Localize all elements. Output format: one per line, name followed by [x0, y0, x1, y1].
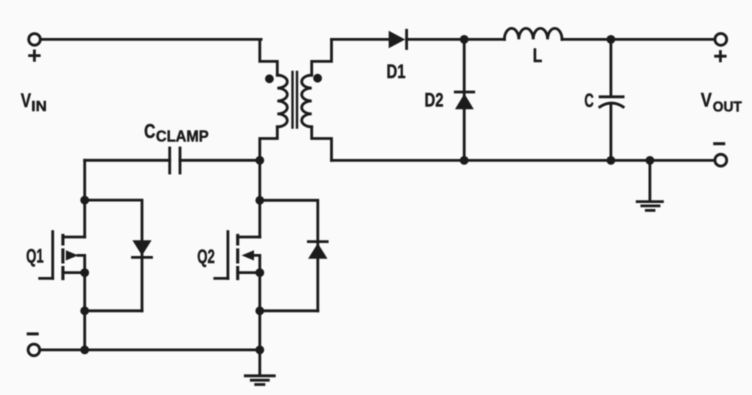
- transformer T1 primary winding: [277, 75, 287, 127]
- capacitor C branch wire bottom: [610, 105, 613, 161]
- ground output side: [637, 160, 662, 210]
- plus sign VOUT+: [716, 52, 726, 61]
- wire Q2 drain line: [258, 158, 261, 237]
- svg-text:D2: D2: [425, 90, 444, 111]
- svg-text:Q2: Q2: [197, 247, 215, 268]
- wire Q2 source down: [258, 273, 261, 350]
- svg-text:V: V: [701, 91, 712, 112]
- transformer secondary phase dot: [313, 74, 322, 83]
- wire transformer primary bottom step: [260, 127, 278, 161]
- transformer T1 secondary winding: [302, 75, 312, 127]
- wire Q1 body-diode branch top: [85, 200, 142, 311]
- minus sign VOUT-: [715, 142, 724, 145]
- svg-text:C: C: [144, 121, 155, 143]
- ground primary side: [245, 350, 274, 385]
- node D2 bottom junction dot: [460, 156, 469, 165]
- svg-text:C: C: [584, 91, 594, 112]
- svg-text:D1: D1: [387, 62, 406, 83]
- terminal VOUT-: [715, 154, 727, 166]
- svg-text:CLAMP: CLAMP: [156, 129, 209, 146]
- wire secondary top to D1: [332, 38, 390, 41]
- node C bottom junction dot: [607, 156, 616, 165]
- node Q2 top junction dot: [255, 196, 264, 205]
- minus sign VIN-: [28, 332, 37, 335]
- diode across Q1: [132, 240, 151, 257]
- diode across Q2: [308, 242, 327, 259]
- svg-text:Q1: Q1: [26, 247, 44, 268]
- svg-text:OUT: OUT: [713, 99, 742, 115]
- terminal VIN-: [28, 344, 40, 356]
- diode D2 branch wire: [463, 39, 466, 160]
- diode D2: [455, 92, 474, 109]
- node Q1 top junction dot: [80, 196, 89, 205]
- wire bottom output rail: [332, 159, 715, 162]
- wire node A to inductor L: [464, 38, 504, 41]
- node Q1 source junction dot: [80, 268, 89, 277]
- wire D1 cathode to node A: [407, 38, 465, 41]
- node Q2 diode bottom junction dot: [255, 306, 264, 315]
- wire transformer secondary bottom step: [312, 127, 332, 161]
- wire bottom rail left: [40, 348, 260, 351]
- terminal VIN+: [29, 34, 41, 46]
- wire transformer secondary top step: [312, 39, 332, 75]
- capacitor CCLAMP: [170, 148, 180, 173]
- wire top rail left (VIN+ to transformer primary): [41, 38, 261, 41]
- wire inductor L to node B: [562, 38, 611, 41]
- wire transformer primary top step: [260, 39, 278, 75]
- transistor Q2 (N-channel MOSFET): [215, 232, 260, 279]
- wire Q2 body-diode branch bottom: [260, 309, 318, 312]
- svg-text:L: L: [533, 46, 543, 67]
- plus sign VIN+: [30, 51, 40, 60]
- svg-text:IN: IN: [31, 99, 47, 115]
- wire Q1 source down: [83, 273, 86, 350]
- node Q2 source junction dot: [255, 268, 264, 277]
- node bottom rail Q2 junction dot: [255, 346, 264, 355]
- wire Q1 body-diode branch bottom: [85, 309, 142, 312]
- svg-text:V: V: [21, 91, 32, 112]
- diode D1: [389, 30, 407, 48]
- wire node B to VOUT+ terminal: [611, 38, 715, 41]
- wire CCLAMP right lead: [180, 159, 260, 162]
- inductor L: [504, 28, 562, 39]
- capacitor C: [600, 97, 623, 107]
- node CCLAMP right junction dot: [255, 156, 264, 165]
- node Q1 diode bottom junction dot: [80, 306, 89, 315]
- node output ground junction dot: [646, 156, 655, 165]
- wire Q2 body-diode branch top: [260, 200, 318, 310]
- transistor Q1 (P-channel MOSFET): [40, 232, 85, 279]
- transformer T1 core: [293, 72, 298, 128]
- node bottom rail Q1 junction dot: [80, 346, 89, 355]
- wire CCLAMP left lead: [85, 159, 170, 162]
- capacitor C branch wire top: [610, 39, 613, 96]
- node B junction dot: [607, 35, 616, 44]
- wire Q1 drain branch: [83, 160, 86, 237]
- transformer primary phase dot: [265, 74, 274, 83]
- node A junction dot: [460, 35, 469, 44]
- terminal VOUT+: [715, 34, 727, 46]
